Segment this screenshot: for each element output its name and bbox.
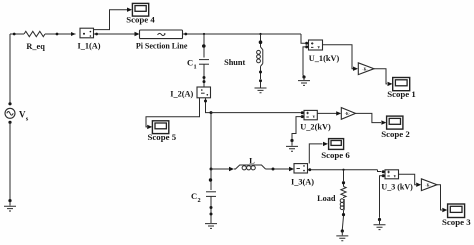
voltage measurement U_2 <box>301 110 318 120</box>
voltage measurement U_1 <box>305 40 322 50</box>
svg-text:Load: Load <box>317 194 336 203</box>
svg-text:L: L <box>249 156 255 166</box>
wire: mid bus to U_2 <box>211 112 301 114</box>
label C_2 <box>191 191 201 204</box>
wire: node down to lower bus <box>210 113 212 169</box>
wire: I_1 output to Pi Section Line <box>94 32 140 36</box>
wire: R_eq to I_1 <box>45 32 76 36</box>
wire: U_1 output to gain <box>323 45 359 71</box>
ground for V_s <box>4 201 16 211</box>
wire: I_2 bottom port down to node <box>204 98 211 113</box>
svg-text:R_eq: R_eq <box>26 42 45 51</box>
wire: I_1 i-output up to Scope 4 <box>94 8 133 30</box>
block Pi Section Line <box>140 30 183 39</box>
source V_s <box>5 108 15 118</box>
resistor R_eq <box>24 31 45 36</box>
scope Scope 3 <box>448 204 465 218</box>
wire: branch down to Shunt <box>259 34 263 47</box>
svg-text:C: C <box>187 58 193 68</box>
wire: U_2 minus to ground <box>290 117 302 142</box>
svg-text:Scope 6: Scope 6 <box>321 150 350 160</box>
label C_1 <box>187 58 197 71</box>
ground for U_3 <box>374 220 386 230</box>
current measurement I_1 <box>80 28 94 38</box>
svg-text:-K-: -K- <box>425 183 431 187</box>
wire: bus down-left to V_s <box>8 34 11 105</box>
wire: L to I_3 <box>266 167 295 171</box>
svg-text:Scope 3: Scope 3 <box>442 217 471 227</box>
current measurement I_2 <box>197 87 211 98</box>
node junction mid bus <box>210 111 213 114</box>
ground for Load <box>336 231 348 241</box>
voltage measurement U_3 <box>382 170 399 180</box>
ground for Shunt <box>255 82 267 93</box>
svg-text:U_2(kV): U_2(kV) <box>300 122 331 131</box>
inductor L <box>236 165 266 170</box>
svg-text:-K-: -K- <box>362 67 368 71</box>
wire: top main bus left segment <box>10 33 24 36</box>
wire: U_3 minus to ground <box>378 176 383 221</box>
scope Scope 5 <box>152 121 168 134</box>
scope Scope 6 <box>329 139 344 150</box>
wire: Load to ground <box>341 216 344 233</box>
svg-text:I_1(A): I_1(A) <box>77 42 100 51</box>
svg-text:C: C <box>191 191 197 201</box>
wire: I_3 i-output up to Scope 6 <box>309 142 328 164</box>
svg-text:U_3 (kV): U_3 (kV) <box>381 183 413 192</box>
gain G1 <box>358 63 374 75</box>
svg-text:-K-: -K- <box>345 112 351 116</box>
wire: U_3 output to gain <box>399 174 422 187</box>
current measurement I_3 <box>294 164 308 173</box>
svg-text:Scope 2: Scope 2 <box>381 129 410 139</box>
wire: U_1 minus to ground <box>302 47 305 79</box>
svg-text:Shunt: Shunt <box>224 58 245 67</box>
resistor-inductor Load <box>340 187 346 217</box>
wire: Pi output bus to U_1 corner <box>183 33 306 44</box>
svg-text:U_1(kV): U_1(kV) <box>309 54 340 63</box>
wire: gain to Scope 2 <box>356 113 387 124</box>
svg-text:I_2(A): I_2(A) <box>170 90 193 99</box>
ground for C_2 <box>205 219 217 228</box>
svg-text:1: 1 <box>194 64 197 71</box>
svg-text:I_3(A): I_3(A) <box>291 177 314 186</box>
wire: lower bus node to L <box>210 167 237 171</box>
capacitor C1 <box>199 60 209 87</box>
wire: I_3 output lower bus to U_3 <box>308 168 382 171</box>
svg-text:Scope 4: Scope 4 <box>126 14 155 24</box>
gain G2 <box>341 108 355 120</box>
svg-text:2: 2 <box>198 197 201 204</box>
wire: branch down to C_1 <box>202 34 206 58</box>
label V_s <box>19 110 29 123</box>
svg-text:Pi Section Line: Pi Section Line <box>136 41 188 50</box>
wire: branch down to Load <box>342 170 345 187</box>
wire: lower node down to C_2 <box>209 169 212 190</box>
ground for U_1 <box>298 77 310 85</box>
gain G3 <box>421 179 437 191</box>
wire: U_2 output to gain <box>317 111 341 115</box>
wire: gain to Scope 1 <box>374 69 393 86</box>
capacitor C2 <box>206 192 216 219</box>
wire: I_2 i-output to Scope 5 <box>146 98 200 129</box>
ground for U_2 <box>286 141 298 152</box>
scope Scope 4 <box>132 3 148 16</box>
wire: gain to Scope 3 <box>437 185 447 213</box>
svg-text:Scope 1: Scope 1 <box>387 89 416 99</box>
svg-text:Scope 5: Scope 5 <box>148 132 177 142</box>
wire: V_s to ground <box>8 121 11 202</box>
inductor Shunt <box>257 47 263 82</box>
scope Scope 2 <box>387 116 403 129</box>
scope Scope 1 <box>393 78 410 91</box>
